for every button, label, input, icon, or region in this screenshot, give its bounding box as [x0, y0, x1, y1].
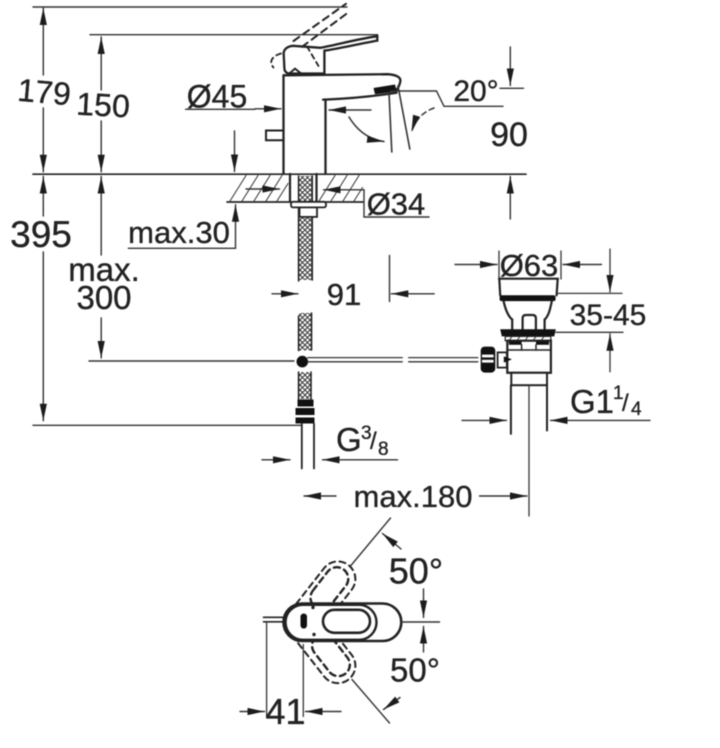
dimension 90 bottom arrow — [509, 177, 511, 220]
faucet body right wall — [324, 100, 326, 175]
dashed lever swung down — [279, 597, 363, 690]
svg-text:max.30: max.30 — [128, 215, 230, 250]
overflow slot bars — [509, 341, 522, 344]
pivot spike — [504, 356, 512, 362]
waste washer hatched — [505, 336, 551, 340]
water stream 20-degree line — [398, 86, 410, 149]
threaded shank middle segment — [299, 313, 312, 351]
svg-text:4: 4 — [631, 399, 642, 420]
dimension max.180 — [304, 495, 527, 497]
upper 50 leader arrow — [383, 534, 402, 550]
svg-text:G1: G1 — [570, 383, 614, 420]
spout underside — [323, 93, 396, 100]
pop-up pull rod horizontal — [308, 358, 478, 362]
lever handle outline — [284, 36, 378, 73]
waste collar — [511, 373, 547, 385]
rod connector — [498, 352, 507, 367]
svg-text:20°: 20° — [453, 75, 498, 108]
wire 91 reference line — [389, 256, 391, 302]
waste funnel rim (filled) — [500, 295, 556, 301]
lever raised rear arc (dashed) — [271, 54, 281, 68]
water stream vertical line — [389, 93, 392, 153]
shank flange nut below deck — [291, 202, 326, 208]
svg-text:50°: 50° — [390, 652, 440, 689]
svg-text:8: 8 — [378, 439, 389, 460]
svg-text:90: 90 — [490, 116, 528, 154]
dimension 41 arrows — [240, 711, 341, 713]
svg-text:G: G — [336, 421, 362, 458]
waste tailpipe walls — [511, 385, 547, 434]
threaded shank lower segment — [299, 372, 311, 399]
svg-text:150: 150 — [76, 86, 131, 125]
plug lift pin — [523, 315, 536, 329]
shank outer walls through deck — [290, 174, 317, 202]
waste funnel cone — [504, 301, 552, 320]
top view small dots — [311, 606, 314, 609]
dashed lever swung up — [279, 554, 363, 690]
svg-text:/: / — [370, 428, 377, 455]
top view lever hole oval — [323, 610, 370, 633]
svg-text:50°: 50° — [389, 551, 443, 592]
wire 90 top tick — [500, 87, 524, 89]
flexible hose walls — [302, 424, 314, 469]
countertop deck top line — [33, 173, 526, 175]
solid angle arc with arrow — [349, 117, 384, 142]
lever raised position (dashed) upper edge — [294, 4, 347, 41]
hose fitting — [296, 400, 315, 424]
ball joint — [297, 356, 309, 368]
dimension G1 1/4 — [462, 419, 650, 421]
leader 20 degrees — [391, 91, 504, 106]
svg-text:max.180: max.180 — [354, 479, 473, 514]
lever raised inner edge (dashed) — [307, 47, 319, 67]
waste body — [507, 341, 551, 373]
aerator lip (filled) — [374, 85, 397, 95]
angular arrow upper — [423, 589, 425, 618]
leader Ø45 with arrow — [186, 109, 371, 110]
angular arrow lower — [423, 627, 425, 653]
lower 50 leader arrow — [384, 698, 401, 710]
temperature limiter tab — [266, 131, 284, 141]
top view slot marker — [301, 614, 308, 629]
top view axis reference line — [401, 621, 439, 623]
lever cap bottom notch — [290, 69, 301, 74]
leader Ø34 — [364, 190, 429, 217]
dimension 395 vertical — [42, 177, 44, 421]
leader max.30 with up arrow — [128, 205, 235, 249]
svg-text:179: 179 — [16, 72, 72, 113]
dimension 41 extension lines — [267, 623, 304, 717]
dimension 150 vertical — [100, 37, 102, 172]
waste body joint line — [507, 349, 551, 351]
dimension 91 arrows — [272, 293, 434, 295]
max.30 down arrow — [234, 131, 236, 172]
lever raised position (dashed) lower edge — [302, 12, 350, 47]
wire handle-tip reference line (150 level) — [90, 34, 378, 36]
top view body capsule — [284, 604, 402, 642]
waste flange (filled) — [500, 329, 556, 336]
svg-text:/: / — [622, 390, 629, 417]
top view handle capsule — [286, 605, 377, 640]
deck hatching right — [319, 176, 363, 202]
shank lock nut — [300, 207, 318, 217]
knurled knob — [481, 347, 496, 373]
svg-text:41: 41 — [265, 691, 305, 732]
dimension 35-45 — [556, 249, 623, 372]
lower 50 degree ray — [352, 680, 390, 724]
dimension G 3/8 — [262, 459, 398, 461]
upper 50 degree ray — [351, 518, 391, 566]
spout top edge and tip — [284, 74, 401, 91]
dimension Ø34 arrows — [246, 188, 364, 191]
svg-text:Ø34: Ø34 — [367, 187, 426, 222]
svg-text:35-45: 35-45 — [570, 299, 647, 332]
wire max.300 bottom reference line — [89, 360, 294, 362]
wire 395 bottom reference line — [33, 424, 301, 426]
dimension 179 vertical — [42, 8, 44, 172]
overflow slot verticals — [522, 345, 536, 350]
countertop deck bottom line — [227, 201, 363, 203]
dimension max.300 vertical — [100, 177, 102, 359]
svg-text:91: 91 — [327, 277, 361, 312]
dashed arc leader to angle — [412, 108, 435, 132]
top view spout stub — [264, 617, 284, 622]
dimension 90 top arrow — [509, 47, 511, 86]
dimension Ø63 — [455, 251, 602, 279]
waste funnel top — [499, 279, 558, 296]
waste funnel neck — [512, 320, 544, 330]
svg-text:395: 395 — [10, 214, 72, 255]
wire top reference line (max handle height) — [33, 6, 347, 8]
deck hatching left — [230, 176, 288, 202]
waste centerline — [528, 385, 530, 516]
threaded shank upper segment — [299, 176, 313, 281]
faucet body left wall — [282, 76, 284, 175]
svg-text:300: 300 — [76, 279, 131, 316]
